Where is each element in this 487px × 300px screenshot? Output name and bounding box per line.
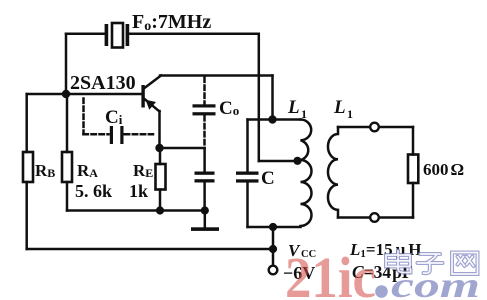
wire secondary right upper	[412, 127, 415, 155]
inductor L1 secondary	[328, 127, 338, 218]
resistor RL 600 ohm	[408, 155, 418, 184]
wire down to RB	[25, 94, 28, 152]
wire RA bottom	[66, 182, 69, 211]
svg-text:1k: 1k	[129, 181, 148, 201]
node tank top	[268, 115, 276, 123]
svg-text:L: L	[287, 97, 300, 118]
capacitor emitter bypass bottom lead	[203, 183, 206, 211]
capacitor C plates	[236, 172, 259, 183]
wire RE bottom lead	[159, 190, 162, 211]
wire tank top rail	[248, 118, 301, 121]
svg-text:1: 1	[347, 107, 353, 121]
capacitor emitter bypass top lead	[203, 148, 206, 172]
wire emitter to bypass cap	[160, 147, 205, 150]
svg-text:Co: Co	[219, 98, 239, 119]
svg-text:RE: RE	[133, 161, 153, 180]
wire from crystal down to base node	[65, 34, 68, 94]
watermark dot	[375, 285, 388, 298]
svg-text:Ci: Ci	[105, 107, 123, 128]
wire inner ground rail	[67, 209, 205, 212]
inductor L1 primary	[301, 120, 312, 227]
svg-text:RB: RB	[35, 161, 55, 180]
terminal secondary bottom	[370, 213, 379, 222]
capacitor Ci dashed leads	[84, 99, 154, 135]
resistor RE	[156, 164, 166, 190]
wire RA top	[66, 94, 69, 152]
wire tank bottom rail	[248, 226, 301, 229]
svg-text:Fo:7MHz: Fo:7MHz	[132, 11, 211, 34]
node coil tap	[293, 157, 301, 165]
wire emitter down	[158, 111, 161, 148]
svg-text:com: com	[391, 265, 480, 300]
crystal Y1	[105, 23, 130, 48]
svg-text:1: 1	[301, 107, 307, 121]
capacitor Co dashed leads	[203, 78, 206, 147]
node RE bottom	[156, 206, 164, 214]
wire capacitor C top lead	[246, 120, 249, 172]
terminal secondary top	[370, 123, 379, 132]
svg-text:RA: RA	[77, 161, 98, 180]
wire crystal right to corner	[129, 34, 259, 161]
wire collector branch down to tank	[271, 76, 274, 120]
watermark 电子网	[386, 251, 478, 275]
capacitor Co plates	[193, 104, 216, 115]
svg-text:21ic: 21ic	[285, 245, 376, 300]
wire to Vcc terminal	[272, 249, 275, 266]
wire base horizontal	[27, 93, 142, 96]
transistor Q1 2SA130	[141, 76, 161, 112]
wire secondary top	[338, 126, 413, 129]
wire crystal left lead	[66, 33, 106, 36]
terminal Vcc	[269, 266, 278, 275]
svg-text:5. 6k: 5. 6k	[75, 181, 112, 201]
wire bottom main rail	[27, 248, 273, 251]
svg-text:2SA130: 2SA130	[70, 72, 136, 94]
wire secondary right lower	[412, 183, 415, 218]
capacitor Ci plates	[110, 126, 124, 144]
capacitor emitter bypass plates	[195, 172, 215, 183]
wire secondary bottom	[338, 216, 413, 219]
node base junction	[62, 90, 70, 98]
wire capacitor C bottom lead	[246, 183, 249, 228]
wire tank to bottom rail	[272, 227, 275, 249]
svg-text:L: L	[333, 97, 346, 118]
wire tap jog to coil tap	[259, 160, 300, 163]
node bottom rail junction	[269, 245, 277, 253]
svg-text:C: C	[261, 168, 275, 189]
wire RB bottom	[25, 182, 28, 249]
svg-text:600Ω: 600Ω	[423, 160, 464, 179]
resistor RA	[62, 152, 72, 182]
node emitter junction	[155, 144, 163, 152]
ground	[191, 211, 219, 231]
node bypass cap bottom	[201, 206, 209, 214]
resistor RB	[23, 152, 33, 182]
node tank bottom	[269, 223, 277, 231]
wire RE top lead	[159, 148, 162, 164]
wire collector rail	[160, 74, 273, 77]
